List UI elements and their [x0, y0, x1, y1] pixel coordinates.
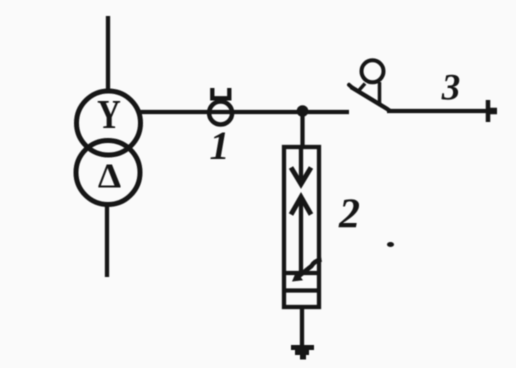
- wire: right horizontal to terminal: [387, 109, 497, 113]
- label 1: [210, 123, 230, 168]
- surge arrester 2: lower divider: [284, 288, 319, 292]
- surge arrester 2: nonlinearity arrow: [292, 260, 322, 282]
- switch 3: blade: [349, 85, 390, 111]
- surge arrester 2: body rectangle: [284, 147, 319, 307]
- current transformer 1: staple on top: [212, 88, 229, 98]
- wire: main horizontal bus: [140, 110, 349, 114]
- node: junction dot: [297, 105, 309, 117]
- ground: [291, 348, 314, 358]
- terminal crossbar: [488, 100, 497, 122]
- current transformer 1: circle: [209, 102, 232, 125]
- switch 3: left leg: [358, 84, 366, 93]
- label 3: [441, 68, 461, 109]
- surge arrester 2: down arrow: [291, 149, 311, 184]
- wire: branch down to arrester: [300, 111, 304, 147]
- switch 3: right leg: [378, 82, 382, 105]
- switch 3: insulator circle: [362, 60, 384, 82]
- transformer T winding Y (primary): [77, 91, 141, 155]
- label 2: [338, 192, 360, 238]
- svg-text:1: 1: [210, 123, 230, 168]
- svg-text:Y: Y: [97, 93, 121, 138]
- wire: transformer lower lead: [105, 205, 109, 278]
- svg-text:2: 2: [338, 192, 360, 238]
- svg-text:3: 3: [441, 68, 461, 109]
- ink speck: [387, 242, 394, 247]
- transformer T winding delta (secondary): [76, 141, 140, 205]
- surge arrester 2: up arrow: [291, 197, 311, 272]
- svg-text:Δ: Δ: [98, 156, 121, 195]
- surge arrester 2: upper divider: [284, 271, 319, 275]
- wire: arrester ground lead: [300, 307, 304, 346]
- wire: transformer upper lead: [106, 16, 110, 91]
